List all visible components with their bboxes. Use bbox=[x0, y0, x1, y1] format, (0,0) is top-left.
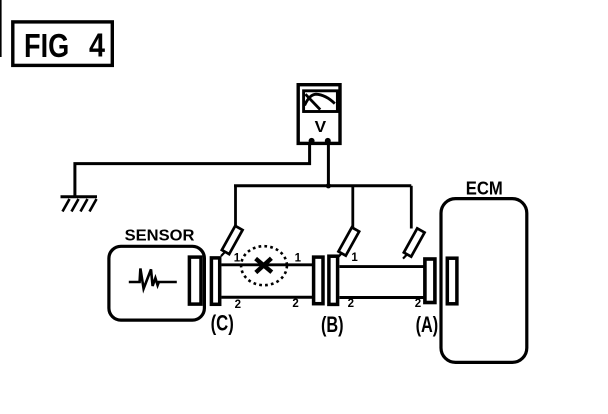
svg-text:1: 1 bbox=[351, 252, 358, 264]
svg-text:ECM: ECM bbox=[466, 177, 503, 198]
wire bus down to probe C bbox=[234, 186, 237, 227]
open circuit X mark bbox=[256, 258, 272, 272]
ECM body bbox=[441, 199, 527, 363]
svg-text:(B): (B) bbox=[321, 312, 344, 337]
svg-text:FIG: FIG bbox=[24, 27, 69, 64]
voltmeter V1 display bbox=[304, 91, 338, 112]
wire bus down to probe A bbox=[410, 186, 413, 229]
wire circuit 2 from C to B bbox=[222, 296, 313, 299]
svg-text:(C): (C) bbox=[211, 311, 234, 336]
wire circuit 1 from B to A bbox=[340, 265, 424, 268]
svg-text:SENSOR: SENSOR bbox=[125, 227, 195, 244]
voltmeter V1 scale arc bbox=[305, 94, 335, 105]
wire voltmeter negative terminal to ground bbox=[75, 142, 310, 196]
figure label box bbox=[13, 22, 113, 66]
voltmeter V1 needle bbox=[305, 94, 320, 109]
sensor side connector half bbox=[189, 257, 201, 304]
connector C harness half bbox=[211, 258, 219, 304]
svg-text:4: 4 bbox=[89, 27, 106, 64]
voltmeter V1 positive terminal bbox=[325, 138, 331, 144]
connector B right half bbox=[329, 256, 338, 304]
test probe at connector B bbox=[336, 227, 359, 260]
ground bbox=[61, 197, 98, 212]
svg-text:2: 2 bbox=[235, 299, 241, 311]
junction of positive wire and probe bus bbox=[326, 183, 331, 188]
connector A bbox=[425, 259, 435, 303]
probe bus wire bbox=[234, 184, 411, 187]
open circuit fault circle bbox=[241, 246, 287, 285]
svg-text:V: V bbox=[315, 119, 327, 136]
test probe at connector C bbox=[219, 226, 242, 259]
svg-text:2: 2 bbox=[292, 298, 298, 310]
svg-text:(A): (A) bbox=[416, 312, 439, 337]
wire bus down to probe B bbox=[351, 186, 354, 228]
svg-text:1: 1 bbox=[234, 253, 241, 265]
connector B left half bbox=[314, 257, 323, 304]
svg-text:2: 2 bbox=[415, 298, 421, 310]
test probe at connector A bbox=[401, 228, 424, 261]
wire voltmeter positive terminal to probe bus bbox=[327, 142, 330, 186]
wire circuit 2 from B to A bbox=[340, 296, 424, 299]
voltmeter V1 body bbox=[298, 85, 340, 144]
voltmeter V1 negative terminal bbox=[309, 138, 315, 144]
wire circuit 1 from C to B bbox=[222, 263, 313, 266]
page edge scan artifact bbox=[0, 0, 2, 57]
ECM side connector half bbox=[447, 258, 457, 304]
svg-text:1: 1 bbox=[295, 253, 302, 265]
svg-text:2: 2 bbox=[348, 298, 354, 310]
sensor element symbol bbox=[129, 268, 177, 288]
sensor body bbox=[109, 246, 204, 320]
